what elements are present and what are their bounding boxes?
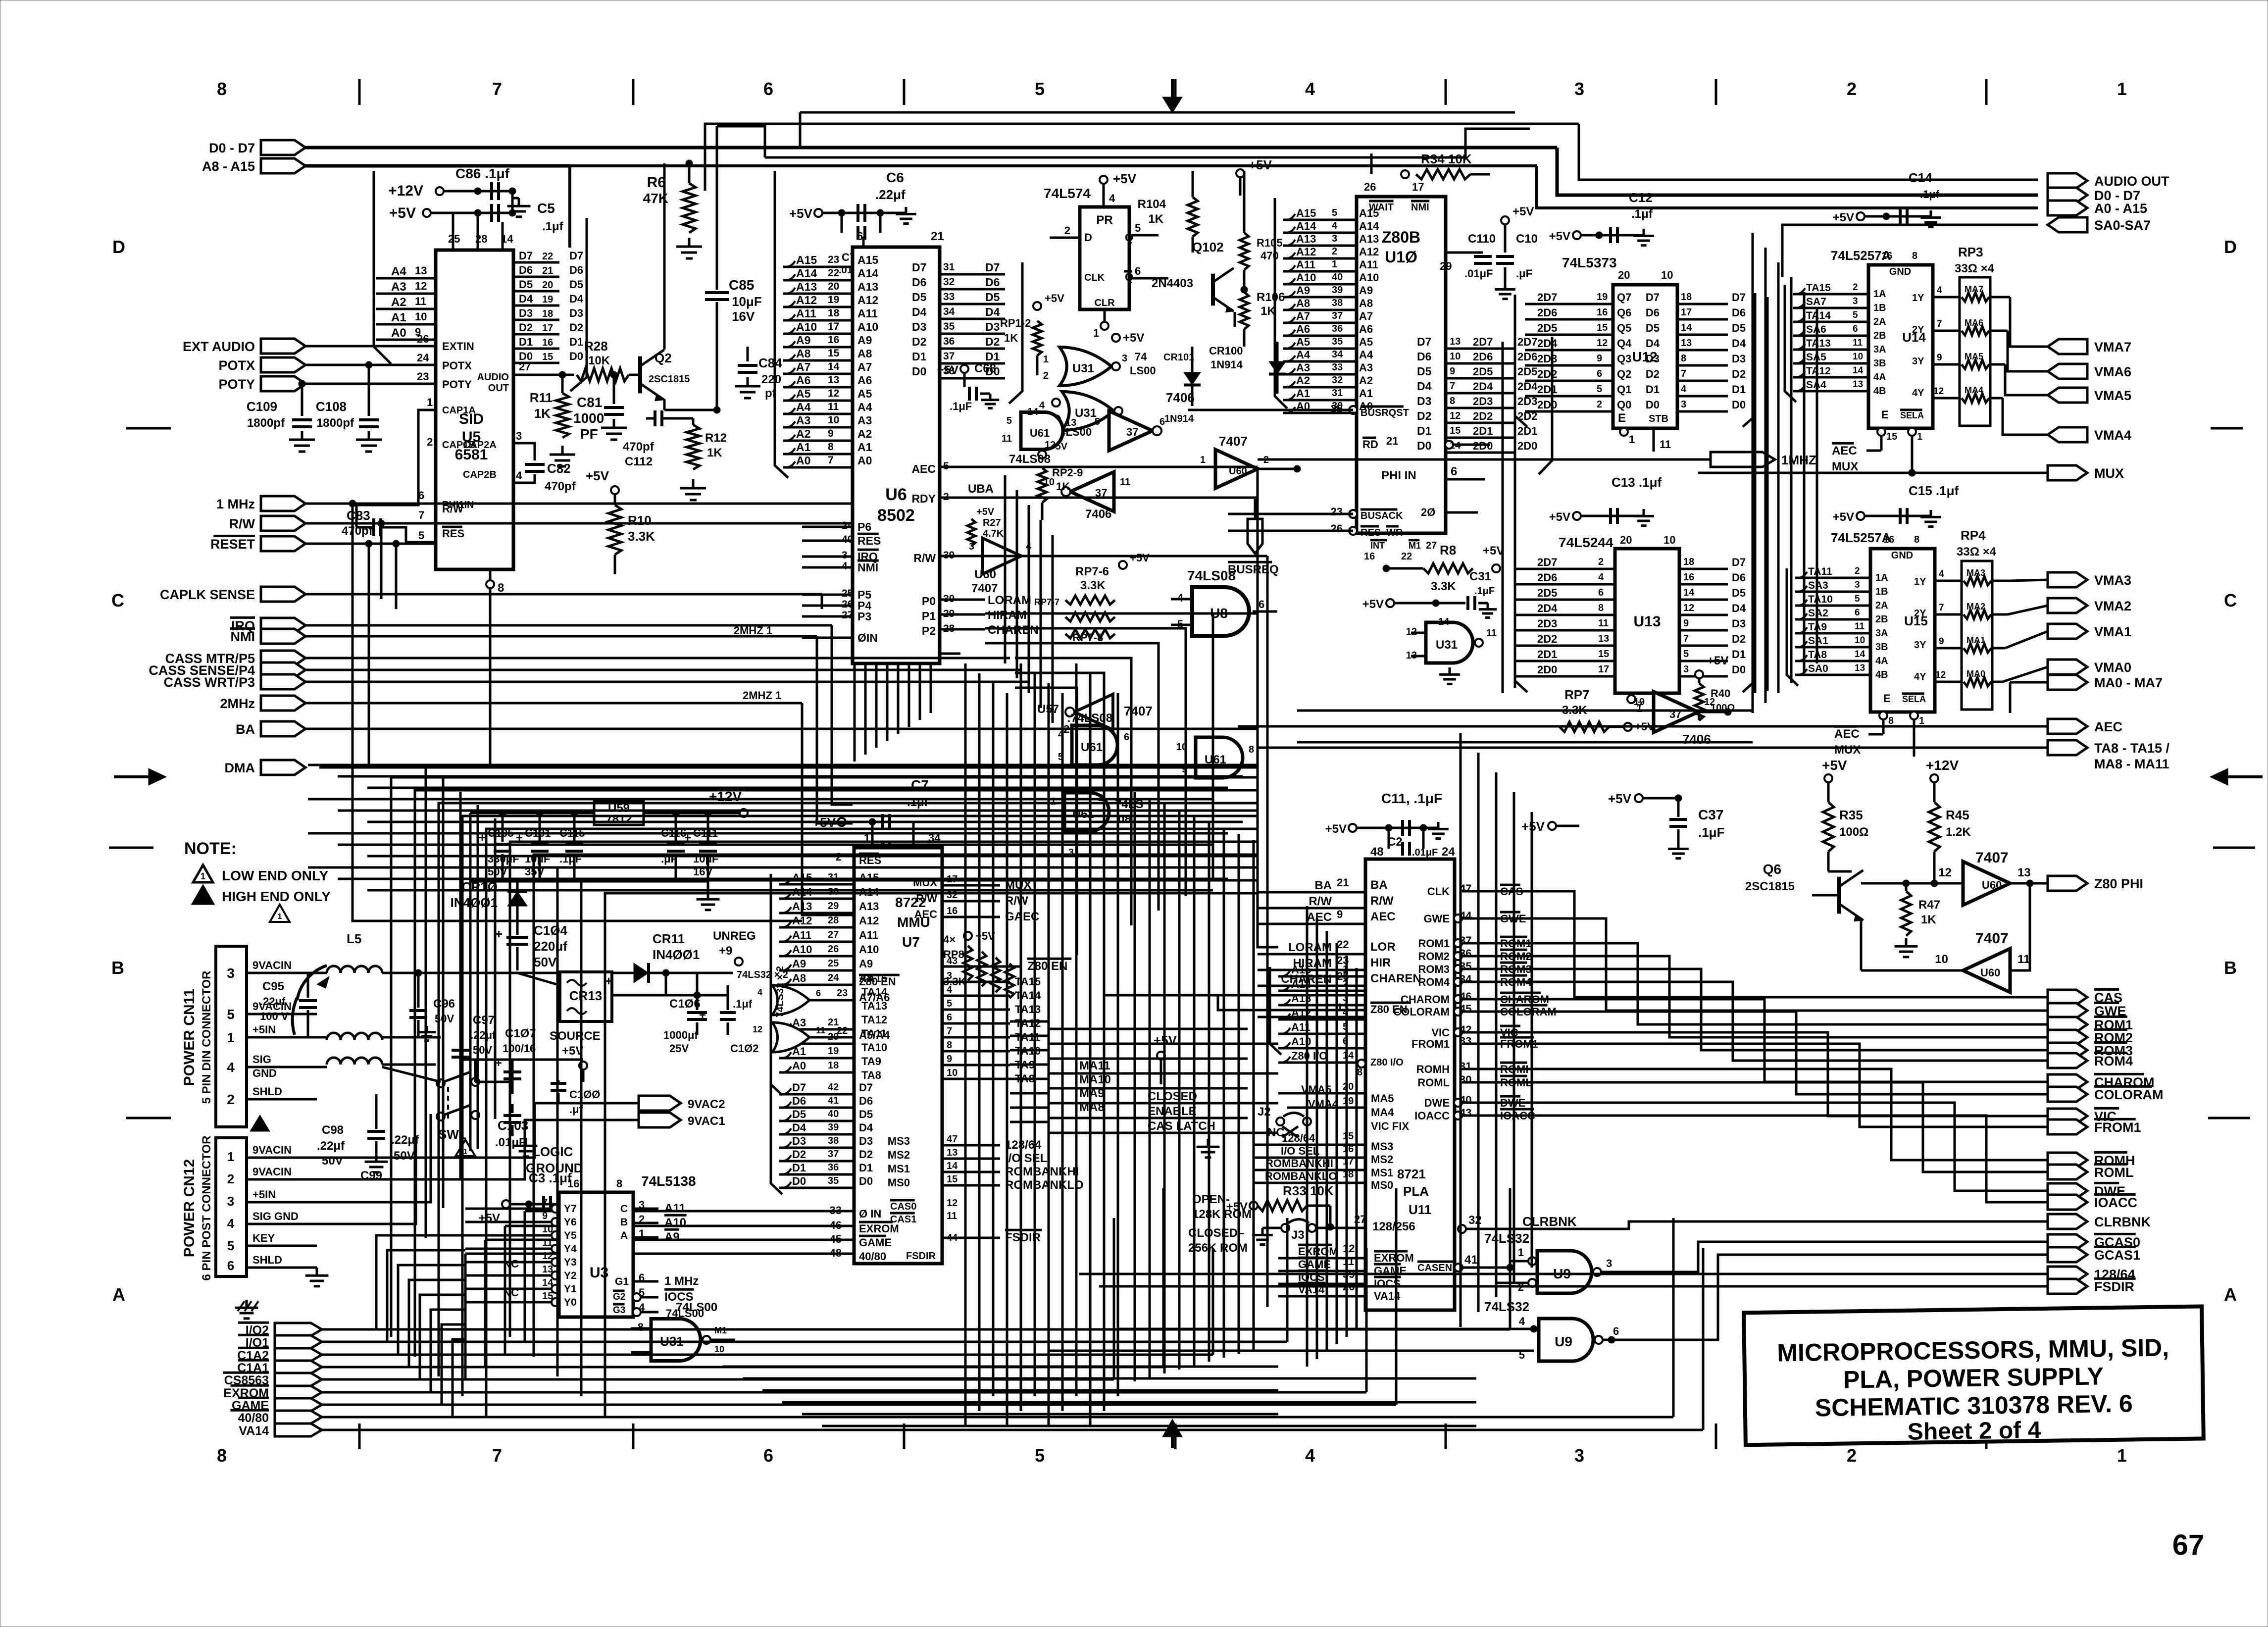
svg-text:8: 8 xyxy=(1450,396,1455,407)
svg-text:1Y: 1Y xyxy=(1914,576,1926,587)
svg-text:MA11: MA11 xyxy=(1079,1059,1110,1072)
svg-text:RES: RES xyxy=(442,527,464,540)
node POTY (left edge flag) xyxy=(218,376,305,392)
svg-text:U61: U61 xyxy=(1030,427,1050,439)
svg-text:100 V: 100 V xyxy=(260,1010,289,1022)
svg-text:32: 32 xyxy=(1468,1214,1482,1227)
svg-text:Q2: Q2 xyxy=(1617,368,1631,380)
svg-text:2D6: 2D6 xyxy=(1537,571,1557,584)
svg-text:D6: D6 xyxy=(1417,350,1431,363)
svg-text:20: 20 xyxy=(1618,269,1630,281)
svg-text:3.3K: 3.3K xyxy=(628,529,655,544)
capacitor C102 .1uf xyxy=(720,985,758,1055)
svg-text:7406: 7406 xyxy=(1085,508,1111,521)
wire BA run xyxy=(305,728,1258,730)
svg-text:9: 9 xyxy=(947,1054,952,1065)
svg-text:LOW END ONLY: LOW END ONLY xyxy=(222,868,329,883)
wire MUX to flag xyxy=(1698,469,2048,476)
svg-text:D4: D4 xyxy=(1646,337,1660,350)
svg-text:A12: A12 xyxy=(1296,246,1316,258)
svg-text:2D5: 2D5 xyxy=(1517,365,1537,378)
svg-text:RP3: RP3 xyxy=(1958,245,1983,259)
svg-text:A0: A0 xyxy=(857,454,872,467)
svg-text:D7: D7 xyxy=(1732,556,1746,568)
svg-text:COLORAM: COLORAM xyxy=(2094,1087,2163,1102)
wire phase bundle xyxy=(940,653,960,655)
svg-text:D4: D4 xyxy=(792,1121,806,1134)
svg-text:TA15: TA15 xyxy=(1015,975,1041,988)
svg-text:6: 6 xyxy=(1598,587,1604,598)
svg-text:B: B xyxy=(111,958,124,978)
svg-text:B: B xyxy=(620,1217,628,1228)
svg-text:MS2: MS2 xyxy=(888,1149,910,1161)
svg-text:11: 11 xyxy=(816,1025,825,1035)
svg-text:26: 26 xyxy=(1331,522,1343,535)
node AUDIO OUT (right edge flag) xyxy=(2048,173,2169,189)
svg-text:A12: A12 xyxy=(857,294,878,306)
svg-text:RP7: RP7 xyxy=(1564,687,1590,702)
svg-text:A: A xyxy=(112,1284,125,1305)
svg-text:A10: A10 xyxy=(857,320,878,333)
svg-text:8: 8 xyxy=(947,1040,952,1051)
svg-text:2D3: 2D3 xyxy=(1537,353,1557,365)
svg-text:A12: A12 xyxy=(859,915,879,927)
wire AEC to flag xyxy=(1238,725,2048,728)
wire 1MHz to U5 PHI1IN xyxy=(305,489,436,507)
svg-text:U60: U60 xyxy=(1980,966,2000,979)
svg-text:3Y: 3Y xyxy=(1912,356,1924,367)
wire CAPLK run xyxy=(305,594,822,609)
svg-text:28: 28 xyxy=(828,915,839,926)
svg-text:2: 2 xyxy=(1847,1445,1857,1466)
svg-text:D4: D4 xyxy=(519,293,533,305)
U3 output pins Y7-Y0 xyxy=(465,1197,559,1306)
svg-text:2SC1815: 2SC1815 xyxy=(1745,880,1795,893)
svg-text:VIC FIX: VIC FIX xyxy=(1371,1120,1409,1132)
svg-text:FROM1: FROM1 xyxy=(2094,1120,2141,1135)
wire 1MHZ to left xyxy=(1258,458,1654,461)
svg-text:17: 17 xyxy=(828,321,839,332)
svg-text:+5V: +5V xyxy=(1608,791,1632,806)
wire UBA long xyxy=(995,497,1258,499)
svg-text:7812: 7812 xyxy=(605,813,632,826)
svg-text:D5: D5 xyxy=(569,278,583,291)
svg-text:3.3K: 3.3K xyxy=(1080,579,1106,592)
node VMA0 (right edge flag) xyxy=(2048,660,2131,675)
capacitor C103 .01uF xyxy=(495,1104,528,1149)
svg-text:POTX: POTX xyxy=(218,358,255,373)
svg-text:R/W: R/W xyxy=(1309,895,1332,908)
svg-text:R47: R47 xyxy=(1918,898,1940,912)
svg-text:R40: R40 xyxy=(1711,687,1730,700)
capacitor C109 1800pf xyxy=(247,384,315,452)
svg-text:SA0-SA7: SA0-SA7 xyxy=(2094,218,2151,233)
svg-text:D0 - D7: D0 - D7 xyxy=(209,141,255,155)
svg-text:36: 36 xyxy=(1332,323,1343,334)
svg-text:12: 12 xyxy=(1450,410,1461,421)
svg-text:+5V: +5V xyxy=(1833,510,1854,524)
svg-text:CHAROM: CHAROM xyxy=(1401,993,1450,1006)
svg-text:EXT AUDIO: EXT AUDIO xyxy=(183,339,255,354)
svg-text:SA0: SA0 xyxy=(1808,663,1828,674)
svg-text:C6: C6 xyxy=(886,170,904,185)
node DWE (right edge flag) xyxy=(2048,1183,2125,1199)
svg-text:4B: 4B xyxy=(1873,386,1886,397)
svg-text:.1μf: .1μf xyxy=(733,998,753,1010)
svg-text:POTX: POTX xyxy=(442,359,472,372)
IC U11 8721 PLA xyxy=(1365,845,1459,1310)
svg-text:8: 8 xyxy=(217,1445,227,1466)
svg-text:6: 6 xyxy=(1853,324,1858,334)
svg-text:R105: R105 xyxy=(1257,237,1283,249)
svg-text:CR11: CR11 xyxy=(653,931,685,946)
svg-text:D3: D3 xyxy=(859,1135,873,1147)
svg-text:74: 74 xyxy=(1135,351,1147,363)
node VMA2 (right edge flag) xyxy=(2048,598,2131,613)
svg-text:A11: A11 xyxy=(1359,258,1378,271)
svg-text:3: 3 xyxy=(1681,399,1686,410)
svg-text:R11: R11 xyxy=(530,390,553,405)
svg-text:4Y: 4Y xyxy=(1914,671,1926,682)
svg-text:2D1: 2D1 xyxy=(1537,383,1557,396)
capacitor C98 C99 xyxy=(317,1094,419,1182)
svg-text:RP1-2: RP1-2 xyxy=(1000,317,1031,329)
node AEC (right edge flag) xyxy=(2048,719,2122,734)
svg-text:D4: D4 xyxy=(1732,602,1746,614)
svg-text:1: 1 xyxy=(1200,455,1206,465)
svg-text:VMA3: VMA3 xyxy=(2094,573,2131,588)
svg-text:D2: D2 xyxy=(1417,409,1431,422)
U11 CASENB output xyxy=(1455,1253,1513,1271)
svg-text:TA8 - TA15 /: TA8 - TA15 / xyxy=(2094,741,2170,756)
svg-text:Q102: Q102 xyxy=(1192,240,1224,254)
svg-text:D: D xyxy=(1084,231,1092,244)
svg-text:9: 9 xyxy=(1337,908,1343,920)
svg-text:A9: A9 xyxy=(664,1230,680,1244)
svg-text:11: 11 xyxy=(1486,628,1497,639)
svg-text:4: 4 xyxy=(516,469,522,482)
gate U31 74LS00 upper xyxy=(1043,347,1156,386)
node ROM4 (right edge flag) xyxy=(2048,1053,2133,1068)
node NMI (left edge flag) xyxy=(230,628,305,644)
svg-text:8502: 8502 xyxy=(877,506,915,525)
wire CR13 out xyxy=(612,973,728,999)
svg-text:22: 22 xyxy=(1401,551,1412,562)
svg-text:VIC: VIC xyxy=(1431,1026,1450,1039)
svg-text:D4: D4 xyxy=(859,1121,873,1134)
svg-text:ROM4: ROM4 xyxy=(2094,1054,2133,1068)
svg-text:6: 6 xyxy=(1259,598,1264,610)
svg-text:PF: PF xyxy=(580,426,598,442)
svg-text:RD: RD xyxy=(1362,438,1378,451)
U11 output staircase to right flags xyxy=(1393,882,2048,1202)
capacitor C14 .1uf xyxy=(1833,170,1941,227)
svg-text:R/W: R/W xyxy=(1005,894,1028,908)
svg-text:D5: D5 xyxy=(1732,587,1746,599)
svg-text:M1: M1 xyxy=(1409,541,1421,551)
svg-text:PHI IN: PHI IN xyxy=(1381,469,1416,482)
wire RW long xyxy=(978,555,1267,558)
svg-text:4: 4 xyxy=(1681,384,1687,395)
svg-text:14: 14 xyxy=(947,1161,958,1171)
svg-text:74LS08: 74LS08 xyxy=(1187,568,1236,583)
svg-text:7: 7 xyxy=(492,1445,502,1466)
svg-text:6: 6 xyxy=(763,1445,773,1466)
transistor Q2 2SC1815 xyxy=(640,163,690,410)
resistor R45 1.2K xyxy=(1929,802,1971,887)
svg-text:TA12: TA12 xyxy=(861,1014,887,1026)
svg-text:8: 8 xyxy=(1598,603,1604,613)
svg-text:2D5: 2D5 xyxy=(1473,365,1493,378)
svg-text:.22μf: .22μf xyxy=(470,1029,496,1041)
svg-text:3B: 3B xyxy=(1873,358,1886,369)
svg-text:2D3: 2D3 xyxy=(1473,395,1493,407)
svg-text:8: 8 xyxy=(1249,744,1254,755)
svg-text:16: 16 xyxy=(1364,551,1375,562)
node FSDIR (right edge flag) xyxy=(2048,1278,2136,1294)
svg-text:RP2-9: RP2-9 xyxy=(1052,466,1083,479)
svg-text:10: 10 xyxy=(1661,269,1673,281)
svg-text:C: C xyxy=(111,590,124,610)
svg-text:D0: D0 xyxy=(1732,663,1746,676)
svg-text:LORAM: LORAM xyxy=(1288,941,1332,954)
svg-text:ROMH: ROMH xyxy=(1416,1063,1450,1075)
svg-text:10: 10 xyxy=(1853,352,1863,362)
svg-text:D4: D4 xyxy=(985,305,1000,318)
svg-text:R104: R104 xyxy=(1138,198,1166,211)
svg-text:ROM3: ROM3 xyxy=(1418,963,1450,975)
svg-text:+5V: +5V xyxy=(586,468,609,483)
svg-text:4A: 4A xyxy=(1875,656,1888,666)
svg-text:+5V: +5V xyxy=(1325,822,1347,836)
svg-text:12: 12 xyxy=(415,280,427,292)
svg-text:MA0 - MA7: MA0 - MA7 xyxy=(2094,675,2163,690)
svg-text:4: 4 xyxy=(1939,569,1944,579)
svg-text:A4: A4 xyxy=(857,401,872,413)
svg-text:13: 13 xyxy=(1853,379,1863,390)
svg-text:34: 34 xyxy=(943,306,955,317)
svg-text:J3: J3 xyxy=(1291,1228,1305,1242)
svg-text:.22μf: .22μf xyxy=(875,187,906,202)
capacitor C81 1000PF xyxy=(573,375,627,442)
svg-text:2B: 2B xyxy=(1875,614,1888,625)
svg-text:17: 17 xyxy=(1412,181,1424,193)
svg-text:LOR: LOR xyxy=(1370,940,1396,954)
svg-text:D2: D2 xyxy=(792,1148,806,1161)
capacitor C95 .22uf 100V xyxy=(260,980,317,1037)
node GCAS1 (right edge flag) xyxy=(2048,1247,2140,1263)
svg-text:TA11: TA11 xyxy=(861,1027,887,1040)
svg-text:14: 14 xyxy=(1681,322,1692,333)
svg-text:220μf: 220μf xyxy=(534,939,567,954)
wire RESET to U5 xyxy=(305,529,436,547)
svg-text:GAME: GAME xyxy=(859,1236,892,1249)
svg-text:C5: C5 xyxy=(537,201,555,216)
svg-text:33: 33 xyxy=(943,291,955,303)
svg-text:CAP1A: CAP1A xyxy=(442,405,476,416)
svg-text:6: 6 xyxy=(418,489,424,502)
wire bus A8-A15 top rail xyxy=(305,166,2038,248)
capacitor bank C105 C101 C115 C116 C111 xyxy=(470,813,719,910)
svg-text:ROMBANKLO: ROMBANKLO xyxy=(1005,1178,1084,1192)
svg-text:4: 4 xyxy=(1109,192,1115,204)
svg-text:P2: P2 xyxy=(922,624,936,637)
jumper J3 xyxy=(1252,1213,1366,1245)
svg-text:7: 7 xyxy=(1638,700,1643,710)
resistor R104 1K xyxy=(1138,157,1272,253)
svg-text:A13: A13 xyxy=(1359,233,1379,245)
svg-text:39: 39 xyxy=(1332,285,1343,296)
svg-text:A14: A14 xyxy=(1296,220,1316,232)
svg-text:A6: A6 xyxy=(796,374,810,387)
svg-text:29: 29 xyxy=(1440,260,1452,272)
IC U12 74LS373 xyxy=(1562,255,1677,452)
wire BUSACK left xyxy=(1228,513,1353,515)
svg-text:9VAC1: 9VAC1 xyxy=(688,1115,725,1128)
svg-text:A14: A14 xyxy=(796,267,817,280)
svg-text:+5IN: +5IN xyxy=(252,1023,276,1036)
svg-text:ØIN: ØIN xyxy=(857,631,878,644)
svg-text:D: D xyxy=(112,237,125,257)
node CAPLK SENSE (left edge flag) xyxy=(160,587,305,602)
svg-text:13: 13 xyxy=(1855,663,1865,673)
IC U10 Z80B xyxy=(1331,181,1490,562)
svg-text:74L5373: 74L5373 xyxy=(1562,255,1617,270)
svg-text:ENABLE: ENABLE xyxy=(1148,1105,1197,1118)
svg-text:100Ω: 100Ω xyxy=(1839,825,1868,839)
svg-text:D1: D1 xyxy=(792,1162,806,1174)
svg-text:11: 11 xyxy=(1853,338,1863,348)
gate U60 7407 buffer xyxy=(1200,434,1301,488)
svg-text:13: 13 xyxy=(542,1264,553,1275)
svg-text:16: 16 xyxy=(542,337,553,348)
node 9VAC1 flag xyxy=(535,1113,725,1128)
svg-text:10: 10 xyxy=(828,414,839,426)
svg-text:20: 20 xyxy=(1620,534,1632,546)
svg-text:MA4: MA4 xyxy=(1371,1106,1394,1119)
svg-text:U9: U9 xyxy=(1555,1334,1572,1349)
svg-text:2D5: 2D5 xyxy=(1537,587,1557,599)
svg-text:1000: 1000 xyxy=(573,410,604,426)
wire LORAM long xyxy=(985,613,1278,947)
svg-text:D2: D2 xyxy=(569,321,583,334)
svg-text:ROML: ROML xyxy=(2094,1165,2133,1180)
svg-text:C109: C109 xyxy=(247,399,277,414)
U7 data fan D7-D0 xyxy=(771,1081,873,1194)
svg-text:1: 1 xyxy=(227,1149,234,1164)
svg-text:2D4: 2D4 xyxy=(1537,602,1558,614)
svg-text:B: B xyxy=(2224,958,2237,978)
svg-text:1A: 1A xyxy=(1873,289,1886,300)
svg-text:D7: D7 xyxy=(985,261,1000,274)
svg-text:A11: A11 xyxy=(664,1202,686,1215)
svg-text:19: 19 xyxy=(542,294,553,305)
wire bottom flags runs xyxy=(322,1188,1703,1430)
wire mid band bus xyxy=(308,765,1258,890)
svg-text:7: 7 xyxy=(1939,603,1944,613)
svg-text:10: 10 xyxy=(947,1068,958,1078)
svg-text:R/W: R/W xyxy=(229,516,255,531)
svg-text:5: 5 xyxy=(1853,310,1858,320)
svg-text:D2: D2 xyxy=(859,1148,873,1161)
svg-text:R45: R45 xyxy=(1946,808,1969,822)
svg-text:C3 .1μf: C3 .1μf xyxy=(529,1170,572,1185)
svg-text:7407: 7407 xyxy=(1975,930,2009,947)
U3 right pins A11/A10/A9/1MHz/IOCS xyxy=(633,1199,717,1316)
capacitor C68 .1uF xyxy=(937,362,1000,412)
svg-text:+5V: +5V xyxy=(1483,544,1504,558)
wire FSDIR to flag xyxy=(1099,1285,2048,1288)
svg-text:50V: 50V xyxy=(394,1149,415,1163)
svg-text:18: 18 xyxy=(828,1060,839,1071)
svg-text:TA15: TA15 xyxy=(1806,282,1831,294)
svg-text:TA13: TA13 xyxy=(1806,338,1831,349)
svg-text:A7: A7 xyxy=(857,360,872,373)
svg-text:CR13: CR13 xyxy=(569,988,602,1003)
svg-text:D6: D6 xyxy=(792,1095,806,1107)
svg-text:1: 1 xyxy=(1332,259,1337,270)
svg-text:A4: A4 xyxy=(796,401,811,413)
svg-text:Y2: Y2 xyxy=(564,1270,577,1281)
svg-text:7: 7 xyxy=(492,79,502,99)
svg-text:SIG: SIG xyxy=(252,1053,271,1066)
svg-text:VMA6: VMA6 xyxy=(2094,364,2131,379)
svg-text:9: 9 xyxy=(1937,353,1942,363)
wire bottom-left riser staircase xyxy=(391,777,1258,1416)
node R/W (left edge flag) xyxy=(229,516,305,531)
svg-text:35: 35 xyxy=(1332,336,1343,347)
svg-text:+5V: +5V xyxy=(789,206,813,221)
svg-text:D1: D1 xyxy=(1417,424,1432,437)
svg-text:COLORAM: COLORAM xyxy=(1393,1006,1450,1018)
svg-text:74L5138: 74L5138 xyxy=(641,1173,696,1189)
svg-text:2D0: 2D0 xyxy=(1537,663,1557,676)
svg-text:+5V: +5V xyxy=(1521,819,1545,834)
svg-text:D1: D1 xyxy=(1732,648,1746,661)
svg-text:D3: D3 xyxy=(792,1135,806,1147)
svg-text:A8: A8 xyxy=(1296,297,1310,309)
svg-text:17: 17 xyxy=(1343,1156,1354,1167)
capacitor C12 .1uf xyxy=(1549,190,1654,246)
wire BUSRQST left xyxy=(1188,409,1353,411)
label SOURCE +5V xyxy=(550,1029,601,1082)
svg-text:CAPLK SENSE: CAPLK SENSE xyxy=(160,587,255,602)
wire D bus right column xyxy=(1755,293,1767,693)
node CLRBNK (right edge flag) xyxy=(2048,1214,2151,1229)
wire top rail 2 xyxy=(765,129,1530,157)
svg-text:A1: A1 xyxy=(1296,387,1310,400)
node 1MHZ flag xyxy=(1654,452,1816,467)
svg-text:6: 6 xyxy=(1597,368,1602,379)
svg-text:L5: L5 xyxy=(347,931,361,946)
svg-text:+12V: +12V xyxy=(1926,758,1959,773)
svg-text:Q3: Q3 xyxy=(1617,353,1631,365)
svg-text:CR101: CR101 xyxy=(1163,352,1194,363)
svg-text:A14: A14 xyxy=(1359,220,1379,232)
svg-text:74L5257A: 74L5257A xyxy=(1831,530,1891,545)
svg-text:.1μF: .1μF xyxy=(1474,586,1495,597)
svg-text:2D6: 2D6 xyxy=(1473,351,1493,363)
svg-text:D5: D5 xyxy=(792,1108,806,1120)
svg-text:D7: D7 xyxy=(859,1081,873,1094)
svg-text:TA11: TA11 xyxy=(1808,566,1832,577)
capacitor C5 .1uf xyxy=(537,201,564,233)
gate U57 7407 left-pointing xyxy=(1037,694,1153,735)
svg-text:1N914: 1N914 xyxy=(1210,358,1243,371)
svg-text:4: 4 xyxy=(1039,400,1045,411)
svg-text:C95: C95 xyxy=(262,980,284,993)
svg-text:EXTIN: EXTIN xyxy=(442,340,474,353)
